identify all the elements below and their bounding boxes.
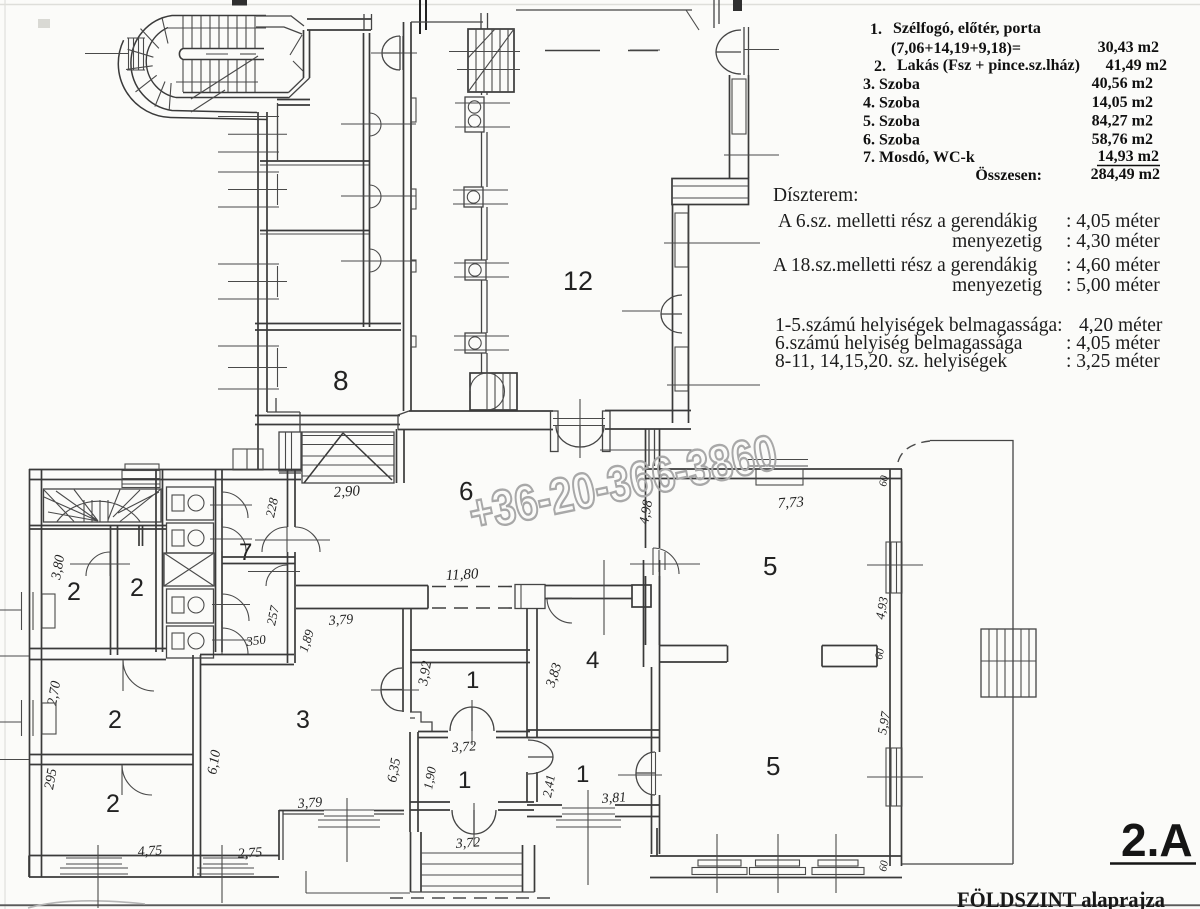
door WC4	[212, 628, 250, 654]
svg-text:Összesen:: Összesen:	[975, 166, 1042, 184]
svg-text:2: 2	[108, 706, 122, 734]
svg-text:58,76 m2: 58,76 m2	[1092, 131, 1153, 148]
svg-text:40,56 m2: 40,56 m2	[1092, 75, 1153, 92]
door D-room-a	[341, 113, 416, 136]
scan bottom edge line	[0, 904, 1200, 906]
door D2-2	[123, 660, 154, 691]
door D2-2low	[122, 765, 152, 795]
room label 1c	[576, 761, 589, 788]
yard hatched box	[981, 629, 1036, 697]
staircase S1 left window	[85, 38, 145, 70]
window WB5a	[692, 834, 747, 893]
svg-text:2: 2	[67, 578, 81, 606]
svg-text:: 4,60 méter: : 4,60 méter	[1066, 255, 1160, 276]
WC stall 1	[167, 487, 214, 520]
svg-text:11,80: 11,80	[445, 566, 479, 584]
svg-text:41,49 m2: 41,49 m2	[1106, 57, 1167, 74]
dim label 2,90	[333, 483, 361, 501]
wall room3 bottom-right jog	[279, 810, 404, 860]
dim label 60 a	[877, 474, 891, 487]
door D2ab	[70, 552, 130, 576]
window WB1	[60, 845, 128, 908]
dim label 350	[244, 631, 267, 649]
wall room3 top y655-665	[200, 655, 294, 665]
svg-text:: 4,30 méter: : 4,30 méter	[1066, 231, 1160, 252]
svg-text:3,83: 3,83	[543, 661, 565, 690]
room label 12	[563, 266, 593, 296]
room label 2c	[108, 706, 122, 734]
scan tick top edge	[232, 0, 247, 6]
dashed threshold line	[390, 897, 552, 899]
dim label 257	[263, 604, 282, 627]
svg-text:8: 8	[333, 365, 349, 396]
title FOLDSZINT alaprajza	[957, 887, 1165, 909]
wall corridor right / room12 west	[404, 22, 412, 411]
svg-text:14,93 m2: 14,93 m2	[1098, 148, 1159, 165]
stairs ST-2,90	[302, 432, 394, 483]
dim label 2,41	[539, 774, 558, 799]
wall room4/5 divider x643-660	[644, 560, 660, 667]
stove ST3	[454, 260, 509, 280]
roof stub A	[122, 464, 160, 488]
yard dashed corner curve	[898, 441, 930, 462]
staircase S1 upper treads	[168, 16, 266, 48]
door D4 top	[547, 560, 604, 635]
yard boundary line	[902, 441, 1013, 865]
wall vest west x402-410	[403, 609, 411, 713]
steps jamb column	[279, 432, 301, 473]
door WC2	[210, 527, 252, 551]
wall room5 east	[890, 469, 902, 866]
svg-text:1: 1	[466, 667, 479, 694]
dim label 4,75	[137, 843, 162, 860]
door D6-5 to room5	[630, 548, 700, 575]
wall right room1 bottom	[527, 805, 660, 817]
svg-text:8-11, 14,15,20. sz. helyiségek: 8-11, 14,15,20. sz. helyiségek	[775, 351, 1007, 372]
margin tick y759	[0, 759, 29, 761]
dim label 3,72b	[454, 835, 480, 852]
window west W-low	[0, 700, 56, 736]
bay window splayed jambs	[256, 16, 310, 99]
room label 2d	[106, 790, 120, 818]
flue wall seg1	[482, 92, 488, 95]
svg-text:4,75: 4,75	[137, 843, 162, 860]
wall room8 bottom	[255, 416, 400, 425]
svg-text:295: 295	[42, 767, 60, 790]
WC stall 3	[167, 589, 214, 623]
wall bottom left section	[29, 856, 279, 878]
stove ST2	[453, 187, 508, 207]
wall east x672-689	[673, 205, 689, 424]
wall 2a/2b divider	[111, 526, 118, 655]
window WB5c	[812, 834, 864, 893]
wall room5 top	[645, 469, 902, 479]
svg-text:1: 1	[458, 767, 471, 794]
svg-text:menyezetig: menyezetig	[952, 275, 1042, 296]
sheet number 2.A	[1110, 814, 1196, 866]
room label 8	[333, 365, 349, 396]
roof stub B	[233, 449, 263, 470]
wall rooms2/3 divider x193-200	[193, 655, 201, 877]
room label 2b	[130, 574, 144, 602]
window east W1	[664, 213, 760, 267]
svg-text:2: 2	[130, 574, 144, 602]
dim label 3,83	[543, 661, 565, 690]
window W1s	[556, 790, 621, 885]
svg-text:2,75: 2,75	[237, 845, 262, 862]
svg-text:7,73: 7,73	[777, 494, 804, 512]
entry steps	[411, 832, 535, 892]
svg-text:4,93: 4,93	[872, 595, 891, 621]
door D-room-c	[341, 249, 416, 272]
svg-text:Lakás (Fsz + pince.sz.lház): Lakás (Fsz + pince.sz.lház)	[897, 57, 1080, 74]
window WB5b	[750, 834, 806, 893]
room label 7	[239, 539, 252, 566]
svg-text:5. Szoba: 5. Szoba	[863, 113, 920, 130]
WC stall 4	[167, 626, 214, 658]
room12 north-east double door	[630, 27, 779, 75]
dim label 5,97	[874, 710, 893, 736]
room label 6	[459, 476, 473, 506]
door D1out double	[452, 803, 496, 846]
room label 2a	[67, 578, 81, 606]
window WB2	[197, 845, 254, 903]
door D1w double to room3	[371, 668, 419, 711]
dim label 295	[42, 767, 60, 790]
svg-text:284,49 m2: 284,49 m2	[1091, 166, 1160, 183]
svg-text:A 6.sz. melletti rész a gerend: A 6.sz. melletti rész a gerendákig	[778, 211, 1038, 232]
window W5e2	[867, 748, 923, 806]
staircase S1 lower treads	[176, 60, 258, 92]
room label 4	[586, 647, 599, 674]
svg-text:3,92: 3,92	[416, 660, 435, 688]
staircase S1 up-arrow diagonal	[191, 56, 258, 112]
stove ST1	[455, 97, 510, 132]
svg-text:4. Szoba: 4. Szoba	[863, 95, 920, 112]
chimney hatched box	[449, 29, 520, 92]
margin tick y655	[0, 655, 29, 657]
room6 south pier wall	[296, 586, 428, 609]
svg-text:3,79: 3,79	[327, 612, 353, 629]
dim label 1,90	[420, 765, 439, 791]
door D1e double	[528, 740, 553, 774]
text area heights	[773, 185, 1163, 372]
dim label 3,80	[49, 554, 68, 582]
window W-c upper-left wall	[218, 264, 287, 299]
svg-text:: 5,00 méter: : 5,00 méter	[1066, 275, 1160, 296]
svg-text:A 18.sz.melletti rész a gerend: A 18.sz.melletti rész a gerendákig	[773, 255, 1037, 276]
vest bottom wall y802-810	[410, 802, 534, 810]
door D7s	[248, 565, 300, 586]
dim label 1,89	[296, 627, 317, 654]
svg-text:84,27 m2: 84,27 m2	[1092, 113, 1153, 130]
window W1c-east double-casement	[618, 752, 662, 795]
svg-text:2,41: 2,41	[539, 774, 558, 799]
svg-text:14,05 m2: 14,05 m2	[1092, 94, 1153, 111]
wall vest east x527-537	[527, 609, 537, 803]
page border faint left edge	[4, 0, 6, 909]
room6 south dashed beam	[432, 587, 512, 609]
door D7e	[255, 527, 330, 552]
wall jog west of steps	[267, 398, 300, 432]
wall rooms2 mid y648-660	[29, 649, 166, 660]
wall room7 south	[222, 557, 295, 564]
svg-text:6,35: 6,35	[385, 757, 404, 784]
svg-text:(7,06+14,19+9,18)=: (7,06+14,19+9,18)=	[891, 40, 1021, 57]
svg-text:3. Szoba: 3. Szoba	[863, 76, 920, 93]
scan speck top-left	[38, 19, 50, 28]
svg-text:1: 1	[576, 761, 589, 788]
wall room7 east x287-295	[288, 469, 296, 663]
dim label 3,81	[600, 790, 626, 807]
room divider y231	[260, 231, 369, 235]
wall east upper x729-749	[730, 75, 749, 178]
svg-text:350: 350	[244, 631, 267, 649]
flue wall seg4	[482, 280, 488, 333]
svg-text:3,72: 3,72	[450, 739, 476, 756]
wall vest top y650-663	[410, 650, 530, 663]
wall top of north room	[307, 19, 371, 30]
room12 south double door D12s	[551, 399, 611, 458]
vest mid wall y732-737	[418, 732, 530, 738]
stair stub wall	[139, 525, 143, 546]
svg-text:30,43 m2: 30,43 m2	[1098, 39, 1159, 56]
dim label 3,92	[416, 660, 435, 688]
svg-text:5: 5	[766, 751, 780, 781]
radiator marks corridor wall	[411, 98, 416, 347]
door east double D12e	[622, 295, 682, 333]
door D1-1 double	[450, 700, 494, 745]
wall room4 south join	[527, 730, 660, 738]
wall room5 bottom	[650, 828, 902, 878]
svg-text:menyezetig: menyezetig	[952, 231, 1042, 252]
svg-text:228: 228	[262, 496, 281, 519]
svg-text:: 3,25 méter: : 3,25 méter	[1066, 351, 1160, 372]
room label 5 upper	[763, 551, 777, 581]
wall lower-left wing divider y755	[29, 755, 193, 765]
room label 3	[296, 706, 310, 734]
stove ST4	[454, 333, 509, 353]
room label 5 lower	[766, 751, 780, 781]
svg-text:7: 7	[239, 539, 252, 566]
wall upper-left outer vertical	[258, 103, 278, 470]
svg-text:3,81: 3,81	[600, 790, 626, 807]
page border faint top edge	[0, 4, 1200, 6]
wall vest jog steps	[410, 712, 432, 732]
svg-text:+36-20-366-3860: +36-20-366-3860	[464, 424, 782, 542]
svg-text:1.: 1.	[870, 21, 882, 38]
svg-text:2.A: 2.A	[1121, 814, 1193, 866]
dim label 2,70	[45, 680, 64, 707]
dim label 60 c	[877, 859, 891, 872]
WC stall 2	[167, 523, 214, 553]
door D-room-b	[341, 185, 416, 208]
svg-text:3,79: 3,79	[296, 795, 322, 812]
staircase S1 newel slot	[179, 49, 264, 60]
room6 south right pier	[515, 585, 545, 609]
wall room4 east x651-660	[652, 667, 660, 854]
text area list	[863, 20, 1167, 184]
shaft X box	[164, 553, 214, 586]
ground line left of steps	[306, 871, 410, 893]
dim label 60 b	[873, 647, 887, 660]
dim label 3,79b	[296, 795, 322, 812]
wall top lower-left wing	[29, 470, 301, 480]
wall vest west lower	[410, 732, 418, 832]
svg-text:6. Szoba: 6. Szoba	[863, 132, 920, 149]
window west W-up	[0, 592, 55, 630]
svg-text:3: 3	[296, 706, 310, 734]
room divider y327 room8 top	[255, 324, 401, 331]
dim label 3,72a	[450, 739, 476, 756]
dim label 2,75	[237, 845, 262, 862]
svg-text:12: 12	[563, 266, 593, 296]
room label 1b	[458, 767, 471, 794]
svg-text:60: 60	[877, 474, 891, 487]
room12 south wall	[398, 411, 553, 430]
flue wall seg2	[482, 132, 488, 187]
svg-text:: 4,05 méter: : 4,05 méter	[1066, 211, 1160, 232]
flue wall seg5	[482, 353, 488, 373]
svg-text:6,10: 6,10	[205, 749, 224, 776]
dim label 4,93	[872, 595, 891, 621]
wall top first room	[277, 100, 310, 106]
dim label 6,35	[385, 757, 404, 784]
svg-text:60: 60	[873, 647, 887, 660]
wall east jog	[672, 179, 749, 205]
wall stub top x420	[420, 0, 426, 34]
window top W5t	[748, 460, 808, 486]
svg-text:FÖLDSZINT alaprajza: FÖLDSZINT alaprajza	[957, 887, 1165, 909]
dim label 228	[262, 496, 281, 519]
section dash line y51	[545, 50, 658, 52]
svg-text:2: 2	[106, 790, 120, 818]
window W3jog	[318, 798, 380, 862]
door D-top-corridor double	[364, 14, 417, 70]
svg-text:257: 257	[263, 604, 282, 627]
wall WC east x215-222	[216, 469, 223, 652]
chimney stub top	[481, 13, 488, 29]
svg-text:2,90: 2,90	[333, 483, 361, 501]
dim label 7,73	[777, 494, 804, 512]
fan stair lower-left	[44, 489, 162, 522]
dim label 4,98	[637, 499, 656, 526]
svg-text:60: 60	[877, 859, 891, 872]
stair-stove hatched box bottom	[470, 373, 517, 410]
staircase S1 radial treads	[126, 17, 171, 110]
wall above NE door torn	[714, 0, 742, 28]
svg-text:Szélfogó, előtér, porta: Szélfogó, előtér, porta	[893, 20, 1041, 37]
dim label 6,10	[205, 749, 224, 776]
wall outer west	[30, 469, 42, 877]
rooms2 top wall	[30, 526, 166, 530]
wall room6 east x645-660	[646, 429, 660, 645]
svg-text:5: 5	[763, 551, 777, 581]
room12 south wall right piece	[605, 411, 691, 467]
flue wall seg3	[482, 207, 488, 260]
watermark phone number	[464, 424, 782, 542]
window east-upper	[724, 79, 779, 155]
svg-text:3,80: 3,80	[49, 554, 68, 582]
wall rooms east x363-369	[364, 33, 370, 327]
svg-text:2.: 2.	[874, 58, 886, 75]
svg-text:4: 4	[586, 647, 599, 674]
svg-text:3,72: 3,72	[454, 835, 480, 852]
window east W2	[667, 347, 760, 391]
room label 1a	[466, 667, 479, 694]
passage wall y585-598	[545, 585, 651, 607]
wall rooms5 divider	[660, 646, 877, 667]
wall east of steps	[397, 429, 405, 483]
scan pencil arc bottom-left	[28, 901, 145, 908]
door WC3	[212, 594, 250, 621]
door WC1	[210, 492, 252, 518]
window W-d upper-left wall	[218, 346, 287, 389]
window W5e1	[867, 542, 923, 593]
room12 top torn line	[516, 10, 699, 30]
window W-b upper-left wall	[218, 172, 287, 207]
svg-text:1,90: 1,90	[420, 765, 439, 791]
dim tick y450	[600, 449, 692, 451]
staircase S1 outer shell	[118, 16, 288, 120]
wall top torn edge y22	[411, 21, 483, 23]
window W-a upper-left wall	[218, 117, 287, 153]
svg-text:Díszterem:: Díszterem:	[773, 185, 859, 206]
svg-text:1,89: 1,89	[296, 627, 317, 654]
dim label 11,80	[445, 566, 479, 584]
svg-text:7. Mosdó, WC-k: 7. Mosdó, WC-k	[863, 149, 975, 166]
dim label 3,79 corridor	[327, 612, 353, 629]
wall WC west x156-162	[156, 469, 163, 652]
room divider y161	[260, 161, 369, 165]
